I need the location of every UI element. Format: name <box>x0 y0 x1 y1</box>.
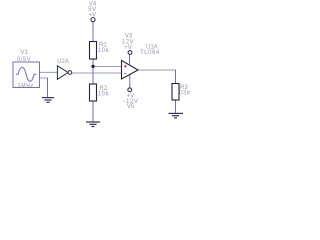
ground (R3) <box>169 113 184 118</box>
resistor R1 <box>90 42 110 60</box>
voltage source V1 <box>13 62 40 89</box>
ground (R2) <box>86 122 100 127</box>
power supply V5 (-12V) <box>122 88 138 110</box>
svg-text:1MHz: 1MHz <box>18 83 34 89</box>
inverter U2A <box>57 59 72 79</box>
wire R2 to ground <box>92 101 94 122</box>
power supply V3 (+12V) <box>122 34 134 55</box>
svg-text:+V: +V <box>89 12 97 18</box>
power supply V4 (5V) <box>88 1 97 21</box>
svg-text:U2A: U2A <box>57 59 69 65</box>
svg-text:TL064: TL064 <box>140 50 160 56</box>
wire R1 to node <box>92 59 94 67</box>
svg-text:+V: +V <box>124 45 132 51</box>
wire inverter output to op-amp inverting input <box>72 72 122 74</box>
svg-text:10k: 10k <box>98 92 110 98</box>
wire node to op-amp non-inverting input <box>93 66 122 68</box>
wire R3 to ground <box>175 100 177 113</box>
svg-text:V5: V5 <box>127 104 135 110</box>
resistor R2 <box>90 84 110 101</box>
wire V1 bottom terminal to ground <box>40 78 49 97</box>
svg-text:03k: 03k <box>179 91 191 97</box>
wire V1 top terminal to inverter input <box>40 71 58 73</box>
op-amp U1A <box>122 44 160 88</box>
wire V4 supply to R1 <box>92 22 94 42</box>
node A junction dot <box>91 65 94 68</box>
svg-text:0/5V: 0/5V <box>17 57 32 63</box>
svg-text:V1: V1 <box>21 50 29 56</box>
resistor R3 <box>172 84 191 101</box>
ground (V1) <box>42 98 54 103</box>
svg-text:10k: 10k <box>98 48 110 54</box>
wire op-amp output to R3 <box>138 70 176 84</box>
label V1 <box>17 50 32 63</box>
wire node to R2 <box>92 67 94 85</box>
